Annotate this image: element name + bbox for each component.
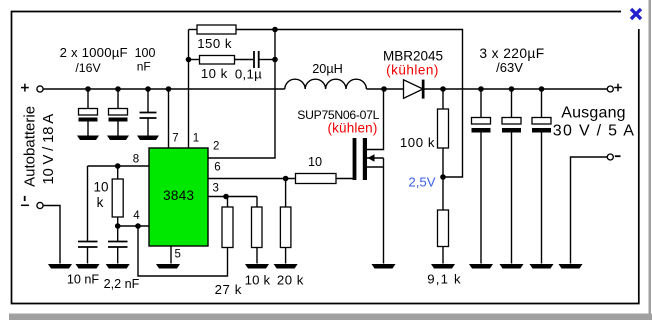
svg-text:2,2 nF: 2,2 nF [104, 277, 140, 291]
svg-text:27 k: 27 k [215, 282, 242, 297]
svg-text:MBR2045: MBR2045 [383, 49, 443, 64]
svg-text:10 k: 10 k [201, 66, 228, 81]
svg-text:8: 8 [133, 154, 139, 166]
svg-text:10 nF: 10 nF [67, 273, 100, 287]
svg-text:2: 2 [213, 141, 219, 153]
svg-text:2 x 1000µF: 2 x 1000µF [60, 45, 128, 60]
svg-text:3: 3 [212, 183, 218, 195]
svg-text:10: 10 [93, 180, 108, 195]
svg-text:20 k: 20 k [277, 273, 304, 288]
svg-text:10 V / 18 A: 10 V / 18 A [40, 114, 57, 185]
svg-text:7: 7 [172, 132, 178, 144]
svg-text:3843: 3843 [163, 188, 194, 203]
svg-text:6: 6 [214, 162, 220, 174]
svg-text:5: 5 [174, 249, 180, 261]
svg-text:20µH: 20µH [312, 62, 343, 76]
svg-text:4: 4 [133, 210, 140, 222]
svg-text:Autobatterie: Autobatterie [22, 106, 39, 187]
svg-text:100: 100 [135, 46, 156, 60]
svg-text:(kühlen): (kühlen) [328, 121, 378, 136]
svg-text:/16V: /16V [75, 61, 101, 75]
svg-text:1: 1 [193, 132, 199, 144]
svg-text:3 x 220µF: 3 x 220µF [479, 46, 544, 61]
svg-text:Ausgang: Ausgang [561, 105, 626, 122]
svg-text:(kühlen): (kühlen) [386, 63, 439, 78]
svg-text:0,1µ: 0,1µ [235, 67, 262, 82]
svg-text:/63V: /63V [496, 60, 523, 75]
svg-text:2,5V: 2,5V [408, 175, 435, 190]
svg-text:nF: nF [137, 60, 151, 74]
svg-text:10: 10 [308, 155, 322, 169]
svg-text:30 V / 5 A: 30 V / 5 A [553, 123, 635, 140]
svg-text:10 k: 10 k [245, 273, 271, 288]
svg-text:150 k: 150 k [197, 36, 232, 51]
svg-text:100 k: 100 k [400, 135, 435, 150]
svg-text:k: k [97, 195, 104, 210]
svg-text:9,1 k: 9,1 k [427, 272, 462, 287]
